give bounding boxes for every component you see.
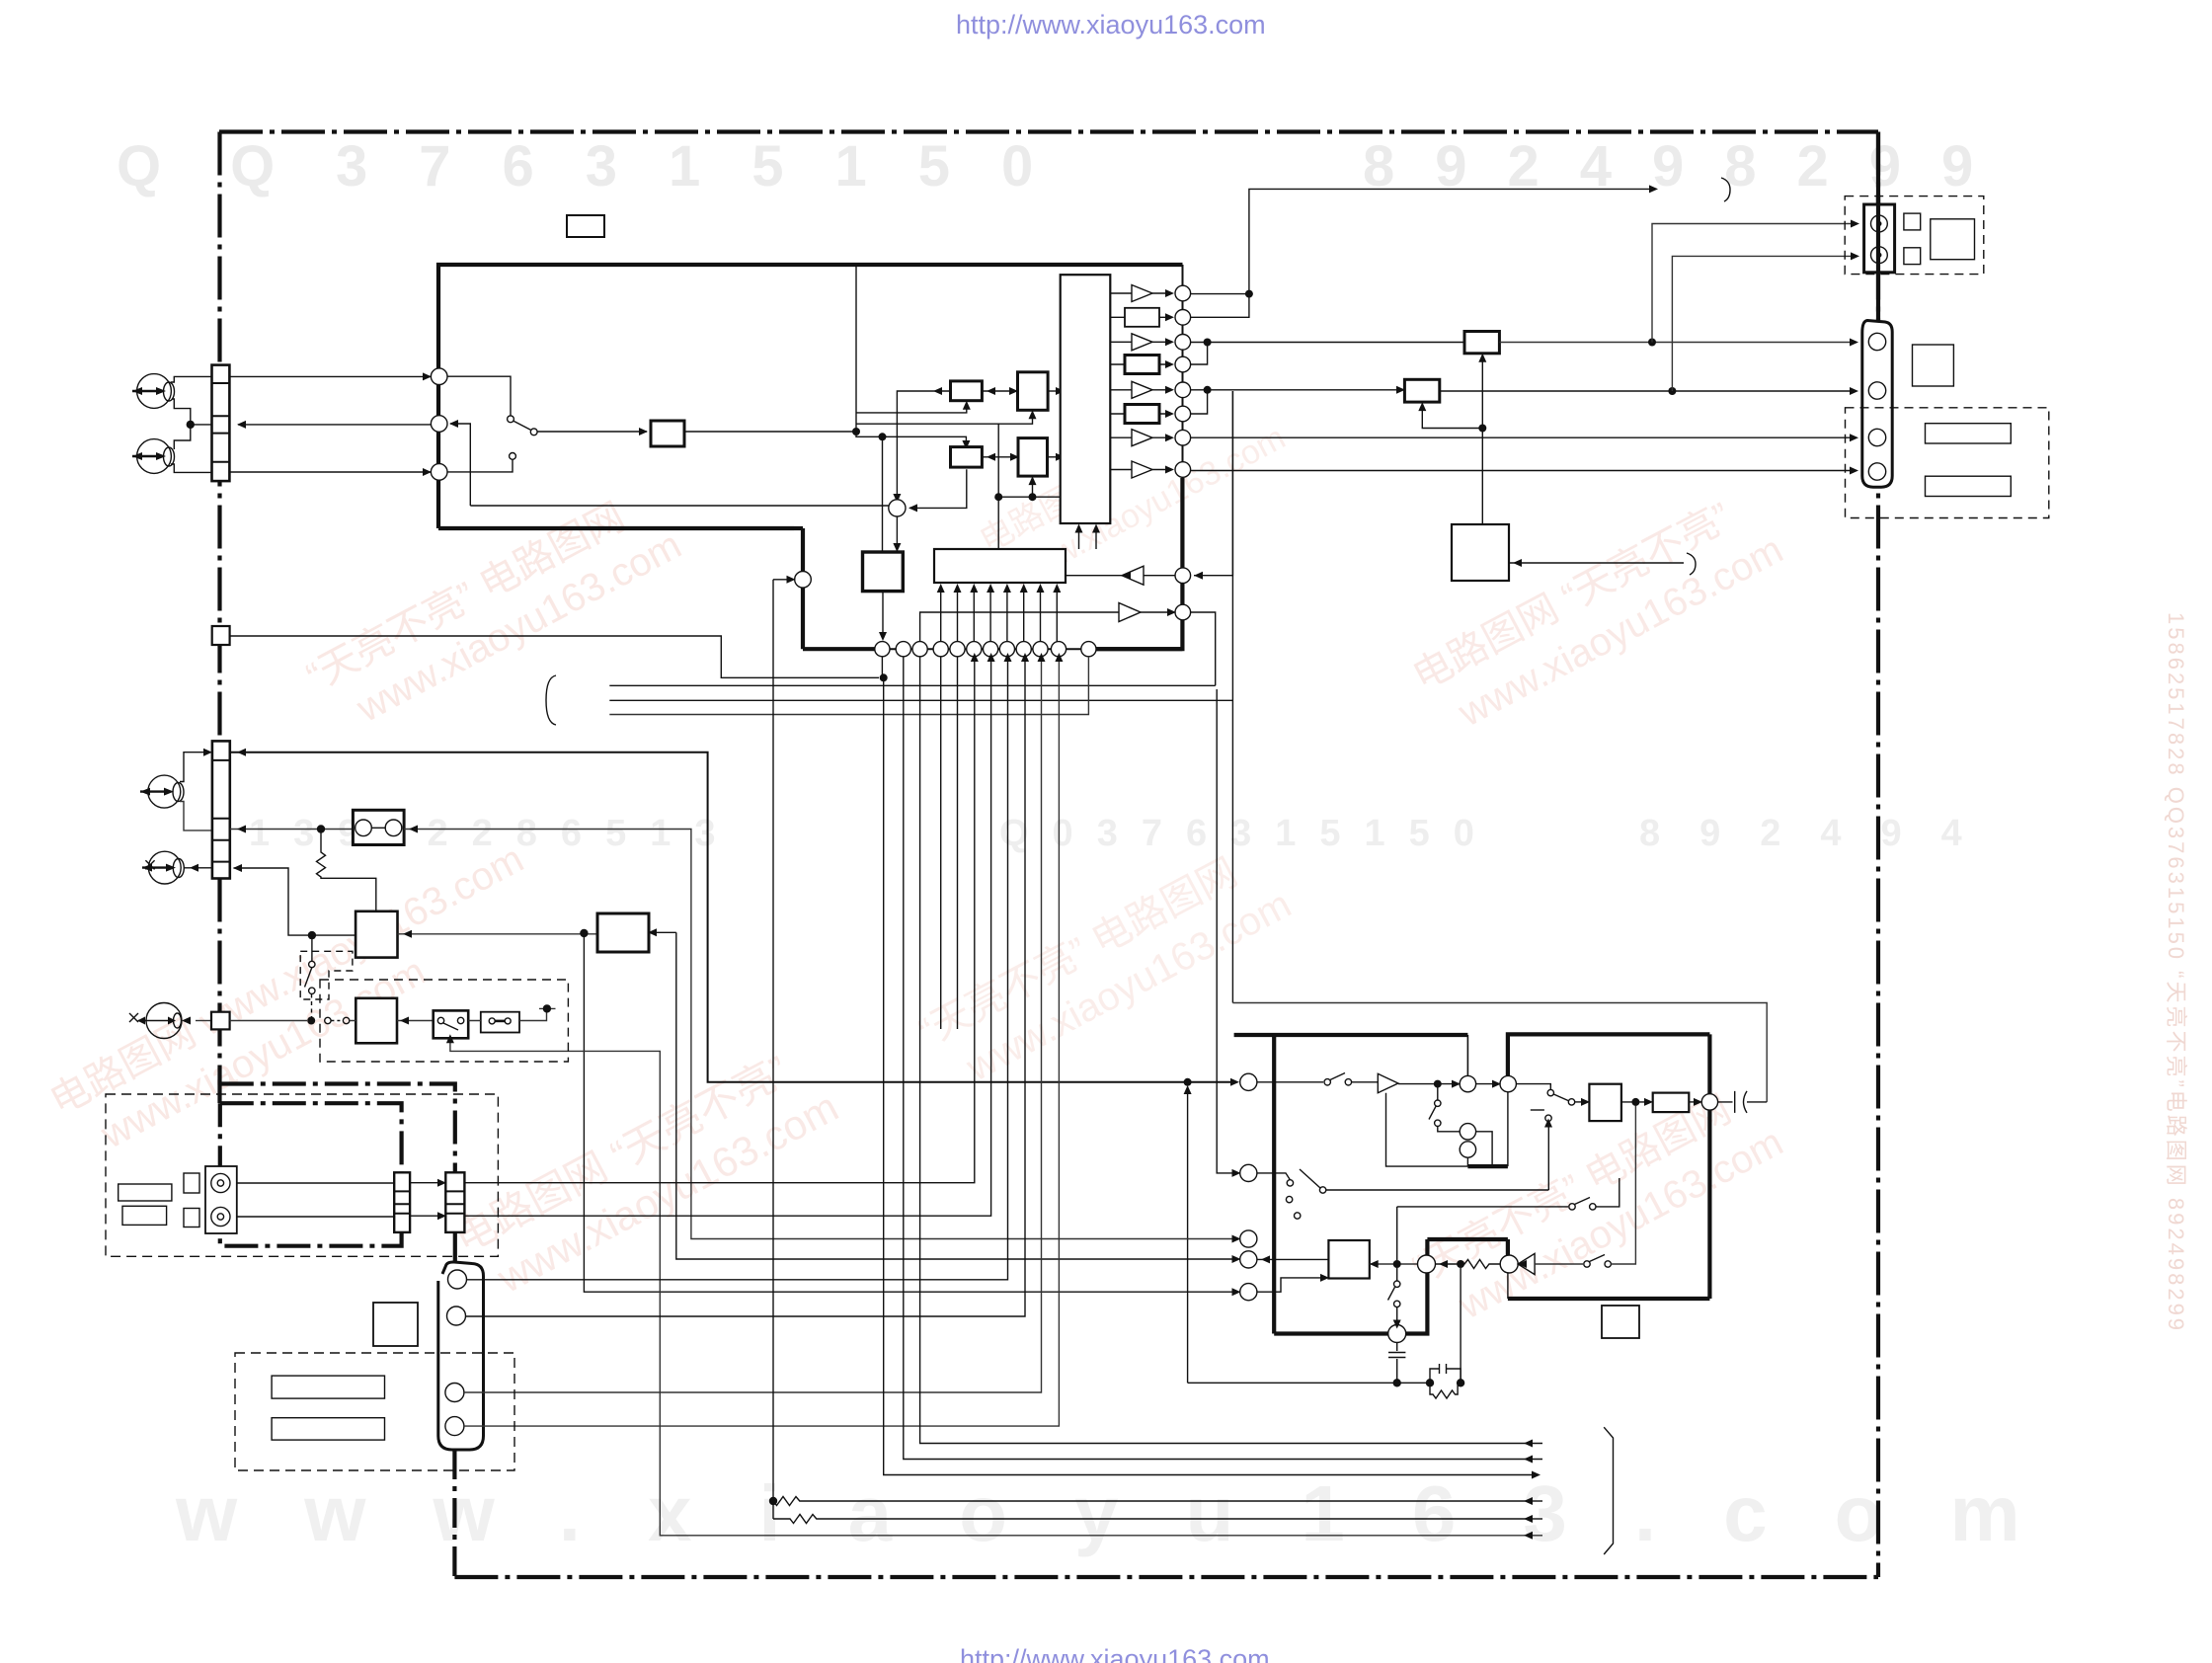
rec cal box [1328, 1240, 1369, 1279]
wire head line 1 [237, 657, 975, 1183]
wire bar P2 stem below [453, 1232, 457, 1262]
output jack top [1871, 215, 1888, 232]
wire pin7 to dsub3 [1191, 436, 1854, 438]
level block B1 [1125, 308, 1159, 327]
monitor buffer A6 (left pointing) [1122, 566, 1144, 585]
wire volume tap drop [882, 436, 884, 552]
deck chassis upper link [220, 1084, 455, 1173]
wire jack J4 from mute box [196, 1020, 211, 1022]
wire S1 to M1 [982, 390, 1017, 392]
mute switch box [434, 1010, 469, 1038]
wire dolby tap (to F5) [584, 933, 1235, 1292]
key matrix feed arrows from summing row [937, 584, 1062, 642]
wire tone feedback into mixer B [773, 579, 791, 581]
dsub pin 2 [1868, 382, 1885, 399]
wire dolby to mute gate [398, 933, 598, 935]
wire tape pin1 (to summing col 8) [467, 657, 1008, 1280]
watermark pink rotated group 2 [43, 837, 556, 1171]
wire CN1 to IC pin1 [229, 375, 431, 377]
wire monitor wiper across [1326, 1189, 1549, 1191]
connector CN2 [212, 741, 230, 878]
mixer B [795, 572, 812, 589]
wire S1eq output to mixer A [897, 391, 950, 499]
head R [211, 1207, 230, 1226]
input jack J2 [137, 439, 172, 474]
chassis stem below tape connector [452, 1450, 456, 1577]
bus hook top right [1721, 178, 1730, 201]
bus line B (to aux pin) [609, 684, 1215, 686]
junction mixer C in [1393, 1260, 1401, 1268]
mixer F5 [1240, 1284, 1257, 1301]
wire M2 to IC [1048, 456, 1061, 458]
wire M1 bottom feed [856, 414, 1033, 424]
dsub pin 3 [1868, 429, 1885, 445]
junction mute node [307, 1017, 315, 1025]
main chassis border dash-dot top [219, 129, 1878, 133]
osc box [1602, 1306, 1639, 1338]
nr frame bottom left [1274, 1331, 1388, 1335]
wire level resistor line B [773, 1501, 1533, 1524]
key matrix block (flat) [934, 549, 1066, 583]
svg-text:15862517828 QQ376315150 “天亮不亮”: 15862517828 QQ376315150 “天亮不亮”电路图网 89249… [2164, 612, 2188, 1333]
mech switch box [373, 1303, 418, 1346]
nr frame right edge [1707, 1034, 1711, 1299]
mixer E [1500, 1255, 1518, 1273]
main chassis border dash-dot left [217, 132, 221, 1104]
monitor pin circle [1175, 568, 1191, 584]
junction pin3 [1204, 339, 1212, 347]
nr frame top right segment [1508, 1034, 1710, 1075]
rec out pin circle [1701, 1094, 1717, 1110]
summing row circles [875, 642, 1096, 657]
buffer A8 ground loop [1386, 1093, 1468, 1166]
level block B3 [1125, 405, 1159, 424]
wire A8 to nr circle 1 [1398, 1083, 1456, 1085]
mixer A [889, 500, 906, 516]
wire head amp input [230, 829, 354, 831]
remote box on border [212, 626, 230, 645]
volume block VR1 [863, 552, 904, 592]
rec eq M1 [1018, 372, 1049, 411]
amp block U1 outline (thick notched box) [438, 265, 1183, 528]
play eq S2 [951, 447, 983, 468]
mode minus mark [1531, 1109, 1544, 1111]
nr frame top left segment [1234, 1033, 1468, 1037]
bus line C (to monitor feed) [609, 391, 1232, 1003]
wire pin3 to switch contact b [447, 459, 513, 472]
wire bar to mute gate [234, 868, 356, 935]
tape head block [205, 1166, 237, 1233]
resistor R1 (level set) [317, 830, 376, 911]
pin circle U1-1 [431, 368, 447, 385]
junction rec mute [543, 1004, 551, 1012]
bus hook mid right [1687, 553, 1696, 575]
dsub pin 1 [1868, 333, 1885, 350]
wire head amp out (to F3) [404, 830, 1235, 1239]
wire pin2 up to junction [1191, 297, 1249, 317]
input jack J1 [137, 374, 172, 409]
wire mixer A line [470, 505, 889, 507]
wire switch to buffer A8 [1352, 1081, 1379, 1083]
nr pin circle 1 [1460, 1075, 1475, 1091]
connector CN1 (input) [212, 365, 230, 482]
speaker bar 2 [1926, 476, 2012, 496]
junction pin5 [1204, 386, 1212, 394]
wire summing col3 down (line1 arrow) [920, 657, 1542, 1444]
main chassis border dash-dot bottom [454, 1575, 1878, 1579]
nr frame bottom right [1508, 1297, 1710, 1301]
wire X1 output to dsub1 [1499, 342, 1854, 344]
bus line D (to summing 12) [609, 657, 1088, 715]
output jacks dashed box [1845, 197, 1984, 275]
svg-text:http://www.xiaoyu163.com: http://www.xiaoyu163.com [956, 10, 1266, 40]
mark x jack4 [129, 1013, 138, 1022]
thick link row to right edge [1096, 647, 1182, 651]
dsub connector shell [1862, 321, 1892, 488]
rec switch contacts [1324, 1079, 1330, 1085]
wire head line 2 [237, 657, 991, 1217]
wire X3 up to filters [1481, 357, 1483, 524]
wire timer tap down [311, 935, 313, 961]
mute out box on border [211, 1012, 230, 1030]
junction A8 out [1434, 1080, 1442, 1088]
wire CN1 to IC pin3 [229, 471, 431, 473]
tape dashed enclosure [106, 1094, 498, 1256]
watermark pink rotated group 4 [912, 835, 1299, 1102]
output jack bottom [1871, 247, 1888, 264]
jack board outline [1931, 219, 1975, 260]
wire F5 step to rec cal [1257, 1278, 1324, 1292]
line out filter X2 [1404, 379, 1439, 402]
parallel RC network [1430, 1364, 1461, 1383]
wire into S1 bottom [856, 405, 967, 413]
mute relay driver box [355, 998, 397, 1044]
dsub pin 4 [1868, 463, 1885, 480]
junction remote to summing column [880, 673, 888, 681]
wire tape return riser [1187, 1089, 1189, 1383]
filter EQ1 [651, 421, 684, 446]
mixer F2 [1240, 1164, 1257, 1181]
wire rec mute bus long (to cap join) [1232, 1003, 1767, 1102]
junction bias RC left [1393, 1379, 1401, 1386]
aux pin circle [1175, 604, 1191, 620]
tape out connector (rounded) [438, 1262, 484, 1450]
wire jack feed 1 [1652, 224, 1855, 343]
junction timer tap [308, 931, 316, 939]
wire jack link ground [172, 399, 212, 449]
wire tape pin3 (to summing col 10) [464, 657, 1042, 1392]
play eq M2 [1018, 438, 1048, 477]
wire pin4 joins pin3 [1191, 343, 1208, 365]
aux buffer A7 [1119, 603, 1141, 622]
svg-text:http://www.xiaoyu163.com: http://www.xiaoyu163.com [960, 1644, 1270, 1663]
right chassis solid segment [1876, 197, 1880, 321]
input jack J4 [146, 1003, 182, 1039]
mixer F4 [1240, 1251, 1257, 1268]
wire X3 control in [1509, 562, 1684, 564]
wire mute feedback (to arrow line 6) [450, 1038, 1533, 1536]
wire jack J2 to connector [171, 464, 212, 472]
wire pin1 to switch contact a [447, 376, 511, 416]
head labels bars [118, 1184, 172, 1201]
wire S2eq output to mixer A [909, 469, 967, 508]
nr loop top thick [1427, 1237, 1508, 1241]
pin circle U1-3 [431, 464, 447, 481]
watermark pink rotated group 1 [300, 478, 688, 745]
buffer amp A4 [1132, 430, 1152, 446]
dolby block B2 [597, 913, 649, 952]
summing row link line [875, 648, 1096, 650]
wire summing col5 down [957, 657, 959, 1029]
tape out pin 2 [447, 1307, 466, 1325]
wire level resistor line A [773, 580, 1533, 1506]
wire pin1 out with junction [1191, 293, 1249, 295]
dsp block IC2 (tall) [1061, 275, 1111, 523]
nr stack circle B [1460, 1142, 1475, 1157]
rec eq S1 [951, 381, 983, 401]
wire to rec level box [1575, 1101, 1585, 1103]
buffer amp A2 [1132, 334, 1152, 351]
bias cap C2 [1388, 1343, 1405, 1384]
wire dolby out (to F4) [653, 931, 676, 933]
wire M2 bottom feed with junctions [998, 424, 1060, 549]
wire F1 to rec switch [1257, 1081, 1323, 1083]
wire E switch corner [1596, 1178, 1619, 1207]
tape out pin 3 [445, 1384, 464, 1402]
nr block frame left [1272, 1034, 1276, 1333]
mixer F1 [1240, 1073, 1257, 1090]
buffer A9 (left pointing) [1518, 1253, 1535, 1274]
wire F4 right to rec cal [1257, 1258, 1328, 1260]
wire switch wiper to EQ1 [538, 431, 648, 433]
wire rec cal out to mixer C [1370, 1263, 1418, 1265]
wire E bottom [1507, 1273, 1509, 1299]
watermark pink rotated group 5 [1406, 481, 1790, 747]
junction F1 line [1184, 1078, 1192, 1086]
wire summing col1 down (line3 arrow) [882, 657, 1532, 1475]
counter bar 2 [272, 1418, 384, 1440]
bus brace [546, 675, 556, 725]
junction jack feed 2 [1668, 387, 1676, 395]
watermark pink rotated group 3 [446, 1034, 845, 1310]
level block B2 [1125, 356, 1159, 374]
wire pin6 joins pin5 [1191, 390, 1208, 414]
wire tape pin4 (to summing col 11) [464, 657, 1059, 1426]
wire monitor feed vertical [1194, 391, 1232, 576]
input jack J3 [148, 775, 181, 808]
wire D to C riser thick [1406, 1273, 1428, 1334]
wire stub to top edge [855, 265, 857, 432]
line out filter X1 [1464, 332, 1499, 354]
mode switch upper [1547, 1089, 1553, 1095]
counter bar 1 [272, 1376, 384, 1398]
wire mute chain left [230, 1020, 307, 1022]
head amp block (two gang pots) [353, 810, 404, 844]
speaker dashed box [1846, 408, 2049, 518]
border solid segment top right [1876, 132, 1880, 205]
wire aux pin out to bus B [1191, 612, 1216, 685]
wire remote line with step [230, 636, 879, 677]
mixer F3 [1240, 1230, 1257, 1247]
trap filter R2 [1653, 1093, 1690, 1113]
wire summing col4 down [940, 657, 942, 1029]
wire volume to summing row [882, 592, 884, 637]
junction resistor line A [769, 1497, 777, 1505]
wire rec-line feedback to top [1249, 189, 1653, 293]
E switch contacts [1569, 1204, 1575, 1210]
bias switch [1584, 1261, 1590, 1267]
wire summing col2 down (line2 arrow) [904, 657, 1542, 1460]
mute gate box [355, 911, 397, 958]
tape out pin 4 [445, 1417, 464, 1436]
wire IC pin2 to CN1 (rec out) [238, 424, 431, 426]
svg-text:QQ: QQ [117, 134, 344, 198]
wire nr2 to mode switch [1516, 1084, 1550, 1090]
mode switch lower [1545, 1115, 1551, 1121]
IC2 bottom feed arrows [1079, 528, 1097, 550]
wire jack J4 from connector [185, 867, 212, 869]
wire R1 to R2 [1621, 1101, 1648, 1103]
wire mixer A to volume block [896, 516, 898, 548]
wire tuner line (to F1) [230, 752, 1234, 1082]
wire A9 to bias switch [1535, 1263, 1583, 1265]
tape monitor switch (3 contacts) [1287, 1180, 1293, 1186]
dsub side board [1913, 345, 1954, 386]
wire bias RC segment [1188, 1382, 1430, 1384]
wire source line to E switch [1397, 1206, 1568, 1208]
wire nr1 to nr2 [1476, 1083, 1496, 1085]
svg-text:376315150: 376315150 [336, 134, 1084, 198]
nr pin circle 2 [1500, 1075, 1516, 1091]
wire jack J1 to connector [171, 376, 212, 382]
label box top [567, 215, 604, 237]
mute drive X3 [1452, 524, 1509, 581]
bottom dashed enclosure [235, 1353, 514, 1470]
buffer amp A1 [1132, 285, 1152, 302]
wire X3 riser to X2 [1422, 406, 1482, 428]
wire pin3 out with junction [1191, 342, 1476, 344]
wire X2 output to dsub2 [1440, 390, 1854, 392]
pin column circles [1175, 285, 1191, 477]
wire into relay box [350, 1020, 434, 1022]
junction X3 riser [1478, 425, 1486, 433]
buffer A8 [1378, 1073, 1398, 1092]
junction RC tap [1457, 1260, 1464, 1268]
fuse box [481, 1012, 519, 1033]
nr loop bottom thick [1467, 1164, 1508, 1168]
muting dashed enclosure [320, 980, 568, 1062]
junction jack link [187, 421, 195, 429]
main chassis border dash-dot right [1876, 132, 1880, 1578]
wire bypass to nr stack [1438, 1127, 1460, 1132]
wire S2 to M2 [982, 456, 1018, 458]
mixer C [1418, 1255, 1436, 1273]
nr stack circle A [1460, 1124, 1475, 1140]
watermark pink rotated group 6 [1406, 1073, 1790, 1339]
timer standby switch (vertical, dashed box) [300, 951, 353, 999]
wire fuse to rec mute bus [468, 1008, 555, 1020]
head L [211, 1173, 230, 1192]
wire pin5 out [1191, 389, 1400, 391]
deck connector bar P1 [394, 1172, 410, 1232]
junction head amp input [317, 825, 325, 832]
tape out pin 1 [448, 1270, 467, 1289]
svg-text:www.xiaoyu163.com: www.xiaoyu163.com [175, 1469, 2088, 1557]
wire mode lower feed [1547, 1125, 1549, 1190]
wire F2 feed riser [1217, 689, 1235, 1173]
nr bypass switch [1435, 1100, 1441, 1106]
rec mute switch above D [1394, 1281, 1400, 1287]
mixer D [1388, 1325, 1406, 1343]
svg-text:Q0376315150: Q0376315150 [999, 813, 1498, 854]
junction at volume tap [879, 433, 887, 440]
timer switch contacts [325, 1017, 331, 1023]
head pads [184, 1173, 199, 1193]
junction dolby input [580, 929, 588, 937]
input jack J4 line out [148, 851, 181, 884]
watermark pink rotated group 7 top-center [974, 378, 1292, 599]
wire RC riser to C line [1460, 1268, 1461, 1383]
buffer amp A3 [1132, 381, 1152, 398]
deck connector bar P2 [445, 1172, 464, 1232]
bus gather bracket right [1604, 1427, 1613, 1554]
output jack pair housing [1864, 204, 1895, 273]
svg-text:892494: 892494 [1639, 813, 2002, 854]
wire rec return to pin2 [450, 424, 470, 506]
wire M1 to IC [1048, 390, 1061, 392]
wire jack feed 2 [1672, 256, 1855, 391]
wire R2 to out pin [1689, 1101, 1698, 1103]
junction bias RC inner left [1426, 1379, 1434, 1386]
wire C to resistor to E [1436, 1260, 1501, 1269]
junction pin1 [1245, 290, 1253, 298]
buffer amp A5 [1132, 461, 1152, 478]
pin circle U1-2 [431, 416, 447, 433]
junction monitor tap [1631, 1098, 1639, 1106]
switch S1 input select [508, 416, 514, 423]
wire EQ1 to S2 feed [684, 432, 966, 445]
wire bias switch riser [1611, 1106, 1635, 1265]
coupling cap C1 [1718, 1091, 1747, 1113]
junction bias RC inner right [1457, 1379, 1464, 1386]
wire jack J3 to connector CN2 [180, 752, 207, 782]
junction EQ1 out [852, 428, 860, 436]
junction jack feed 1 [1648, 339, 1656, 347]
rec level box R1 [1589, 1084, 1621, 1121]
jack pads [1904, 213, 1921, 230]
wire nr stack loop [1476, 1132, 1493, 1166]
wire tape pin2 (to summing col 9) [466, 657, 1026, 1316]
wire pin8 to dsub4 [1191, 470, 1854, 472]
wire F2 to monitor switch [1257, 1173, 1291, 1180]
deck chassis dash-dot rect [220, 1103, 402, 1246]
speaker bar 1 [1926, 424, 2012, 443]
